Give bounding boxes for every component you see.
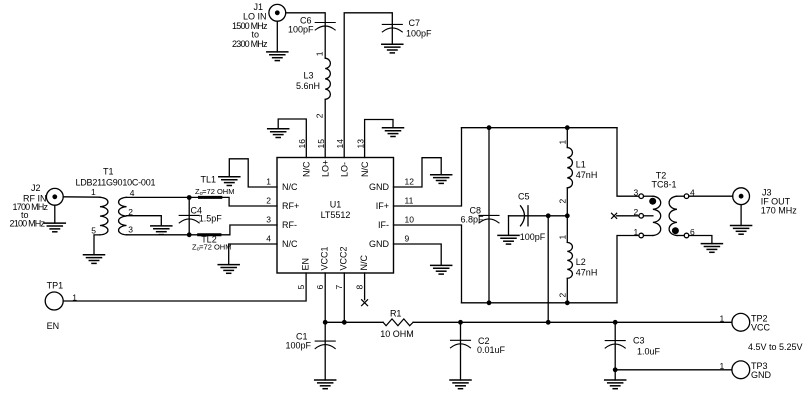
svg-text:1: 1 (72, 293, 77, 303)
transformer T2 pin 2 terminal (639, 214, 644, 219)
node pin7 junction (342, 320, 347, 325)
resistor R1 (383, 319, 413, 326)
inductor L2 (567, 242, 572, 278)
svg-text:1.0uF: 1.0uF (637, 347, 661, 357)
wire L1 bottom lead (566, 188, 568, 216)
svg-text:LT5512: LT5512 (321, 210, 351, 220)
node C8 bottom (487, 300, 492, 305)
svg-text:GND: GND (369, 182, 390, 192)
label C1 (285, 332, 311, 351)
svg-text:6.8pF: 6.8pF (460, 215, 484, 225)
label TP3 (720, 361, 772, 380)
svg-text:2: 2 (634, 207, 639, 217)
transformer T2 pin 3 terminal (639, 194, 644, 199)
label C6 (288, 16, 314, 35)
capacitor C4 (179, 198, 199, 235)
svg-text:3: 3 (266, 215, 271, 225)
label IC bottom pins (301, 246, 369, 270)
svg-text:R1: R1 (390, 308, 402, 318)
svg-text:14: 14 (335, 139, 345, 149)
label T1 (76, 167, 156, 188)
wire T2 pin 4 to J3 (689, 195, 733, 197)
wire pin 10 IF- faller (394, 225, 462, 303)
no-connect X (T2 pin 2) (612, 213, 617, 218)
test point TP3 (732, 361, 750, 379)
capacitor C7 (382, 24, 402, 32)
wire L2 bottom lead (566, 278, 568, 302)
label U1 (321, 200, 351, 221)
label C7 (406, 18, 432, 39)
svg-text:1: 1 (91, 187, 96, 197)
wire T1 pin 5 to ground (94, 235, 100, 255)
svg-text:47nH: 47nH (576, 170, 598, 180)
svg-text:VCC2: VCC2 (339, 246, 349, 270)
label TL1 (195, 175, 234, 198)
svg-text:4: 4 (266, 234, 271, 244)
wire TL1 to pin 2 (221, 197, 277, 206)
wire L1 top lead (566, 128, 568, 148)
label C5 (518, 192, 546, 243)
svg-text:2300 MHz: 2300 MHz (232, 39, 268, 49)
ground (C2) (450, 380, 471, 389)
wire IF bottom rail (462, 302, 618, 304)
ground (C5) (498, 235, 519, 244)
node C4 bottom junction (187, 232, 192, 237)
svg-text:1: 1 (720, 313, 725, 323)
wire center tap to C5 (548, 215, 567, 217)
transformer T2 pin 4 terminal (684, 194, 689, 199)
svg-text:2100 MHz: 2100 MHz (10, 219, 46, 229)
label C8 (460, 206, 484, 225)
svg-text:LDB211G9010C-001: LDB211G9010C-001 (76, 178, 156, 188)
svg-text:3: 3 (634, 188, 639, 198)
svg-text:8: 8 (354, 285, 364, 290)
svg-text:1: 1 (558, 235, 568, 240)
transformer T1 primary (100, 197, 108, 235)
ground (T2 pin 6) (701, 244, 722, 253)
capacitor C5 (521, 206, 529, 226)
wire T1 pin 3 to TL2 (127, 234, 220, 236)
ground (pin 12) (431, 175, 452, 184)
svg-text:L2: L2 (576, 257, 586, 267)
svg-text:100pF: 100pF (520, 232, 546, 242)
svg-text:2: 2 (558, 293, 568, 298)
ground (C3) (605, 380, 626, 389)
label R1 (380, 308, 414, 339)
wire IF+ rail to T2 pin 3 (617, 128, 639, 197)
svg-text:1.5pF: 1.5pF (199, 214, 223, 224)
node C3 bottom junction (613, 367, 618, 372)
svg-text:1: 1 (634, 227, 639, 237)
svg-text:LO-: LO- (340, 162, 350, 177)
label IC right pins (369, 182, 390, 249)
svg-text:GND: GND (751, 370, 772, 380)
label T2 pin numbers (634, 188, 696, 237)
svg-text:4: 4 (690, 188, 695, 198)
transformer T2 secondary (669, 196, 677, 235)
phasing dot T2 primary (649, 198, 656, 205)
wire T2 coil to pin 4 (677, 195, 684, 197)
label IC left pin numbers (266, 177, 271, 244)
svg-text:N/C: N/C (360, 161, 370, 177)
node C8 top (487, 125, 492, 130)
ground (pin 1) (219, 177, 240, 186)
wire J1 to C6 (286, 13, 326, 58)
wire T2 coil to pin 6 (677, 235, 684, 237)
node pin6 junction (323, 320, 328, 325)
wire L2 top lead (566, 216, 568, 243)
svg-text:N/C: N/C (282, 182, 298, 192)
svg-text:LO IN: LO IN (243, 12, 267, 22)
ground (J1) (267, 21, 288, 60)
inductor L3 (325, 58, 330, 99)
svg-text:7: 7 (334, 285, 344, 290)
node riser junction (546, 320, 551, 325)
svg-text:4.5V to 5.25V: 4.5V to 5.25V (748, 342, 803, 352)
svg-text:1: 1 (315, 51, 325, 56)
wire T2 pin3 to coil (644, 195, 653, 197)
svg-text:1: 1 (720, 361, 725, 371)
wire IF- rail to T2 pin 1 (617, 236, 639, 303)
capacitor C2 (451, 322, 471, 380)
svg-text:5: 5 (296, 285, 306, 290)
svg-text:9: 9 (405, 234, 410, 244)
label IC bottom pin numbers (296, 285, 364, 290)
svg-text:12: 12 (405, 177, 415, 187)
svg-text:EN: EN (47, 321, 60, 331)
connector J2 (46, 188, 63, 205)
wire GND line to TP3 (615, 369, 732, 371)
ground (J3) (731, 205, 752, 235)
capacitor C1 (315, 322, 335, 380)
label J3 block (761, 188, 798, 216)
svg-text:100pF: 100pF (285, 341, 311, 351)
svg-text:TL1: TL1 (201, 175, 217, 185)
svg-text:LO+: LO+ (321, 160, 331, 177)
wire pin 12 to ground (394, 158, 442, 187)
node C4 top junction (187, 195, 192, 200)
wire T1 pin 4 to TL1 (127, 196, 200, 198)
wire C5 left lead to ground (508, 216, 510, 236)
svg-text:C5: C5 (518, 192, 530, 202)
svg-text:T1: T1 (103, 167, 114, 177)
transformer T2 pin 1 terminal (639, 233, 644, 238)
svg-text:J2: J2 (31, 183, 41, 193)
svg-text:N/C: N/C (302, 161, 312, 177)
wire IF top rail (462, 127, 618, 129)
svg-text:3: 3 (128, 225, 133, 235)
node C2 junction (458, 320, 463, 325)
svg-text:1700 MHz: 1700 MHz (13, 202, 49, 212)
svg-text:to: to (251, 30, 259, 40)
wire C5 right lead (509, 215, 549, 217)
ground (pin 16) (268, 129, 289, 138)
svg-text:0.01uF: 0.01uF (477, 345, 506, 355)
inductor L1 (567, 148, 572, 188)
wire pin 16 to ground (278, 119, 306, 158)
svg-text:J1: J1 (253, 2, 263, 12)
svg-text:RF+: RF+ (282, 201, 299, 211)
node C3 junction (613, 320, 618, 325)
svg-text:C7: C7 (409, 18, 421, 28)
wire J2 to T1 pin 1 (63, 196, 100, 198)
svg-text:1: 1 (558, 140, 568, 145)
svg-text:10: 10 (405, 215, 415, 225)
wire T2 pin1 to coil (644, 235, 653, 237)
connector J3 (733, 188, 750, 205)
node L1 top (565, 125, 570, 130)
wire L3 to pin 15 (324, 99, 326, 157)
wire T1 pin 2 tap to ground (127, 216, 162, 226)
svg-text:2: 2 (315, 113, 325, 118)
label TP1 (47, 281, 78, 332)
ground (C7) (382, 44, 403, 53)
capacitor C6 (315, 23, 335, 31)
wire pin 5 EN to TP1 (63, 273, 306, 301)
svg-text:100pF: 100pF (288, 25, 314, 35)
svg-text:L1: L1 (576, 160, 586, 170)
label TL2 (192, 235, 231, 253)
connector J1 (269, 4, 286, 21)
wire pin 4 to ground (229, 244, 277, 265)
svg-text:IF-: IF- (378, 220, 389, 230)
ground (pin 13) (383, 128, 404, 137)
svg-text:1500 MHz: 1500 MHz (232, 21, 268, 31)
label IC left pins (282, 182, 299, 249)
svg-text:N/C: N/C (282, 239, 298, 249)
svg-text:100pF: 100pF (406, 29, 432, 39)
svg-text:5: 5 (91, 226, 96, 236)
wire TL2 to pin 3 (220, 225, 277, 235)
svg-text:11: 11 (405, 196, 414, 206)
wire T2 pin 6 to ground (689, 236, 712, 244)
label C4 (191, 206, 223, 224)
svg-text:TP1: TP1 (47, 281, 64, 291)
ground (T1 tap) (151, 226, 172, 235)
node center tap (565, 213, 570, 218)
node L2 bottom (565, 300, 570, 305)
transformer T1 secondary (119, 197, 127, 235)
transmission line TL1 (200, 196, 221, 199)
wire pin 13 to ground (365, 120, 393, 158)
transmission line TL2 (199, 233, 220, 236)
wire pin 14 riser to C7 (344, 13, 392, 158)
capacitor C3 (605, 322, 625, 380)
svg-text:TC8-1: TC8-1 (651, 180, 676, 190)
svg-text:5.6nH: 5.6nH (296, 81, 320, 91)
label TP2 (720, 313, 771, 332)
label L3 (296, 70, 320, 91)
svg-text:N/C: N/C (359, 255, 369, 271)
svg-text:47nH: 47nH (576, 268, 598, 278)
label IC right pin numbers (405, 177, 415, 244)
capacitor C8 (479, 128, 499, 303)
svg-text:10 OHM: 10 OHM (380, 329, 414, 339)
svg-text:L3: L3 (303, 70, 313, 80)
label C2 (477, 336, 506, 355)
wire VCC riser (547, 216, 549, 322)
no-connect X (pin 8) (362, 300, 368, 306)
label IC top pin numbers (297, 139, 365, 149)
label IC top pins (302, 160, 370, 177)
svg-text:C3: C3 (633, 336, 645, 346)
svg-text:VCC: VCC (751, 323, 771, 333)
ground (J2) (44, 205, 65, 232)
label T2 (651, 171, 676, 190)
svg-text:4: 4 (130, 188, 135, 198)
svg-text:6: 6 (315, 285, 325, 290)
wire pin 7 to VCC line (343, 273, 345, 322)
svg-text:RF-: RF- (282, 220, 297, 230)
svg-text:2: 2 (558, 199, 568, 204)
svg-text:16: 16 (297, 139, 307, 149)
svg-text:VCC1: VCC1 (320, 246, 330, 270)
test point TP1 (45, 292, 63, 310)
wire T2 pin 2 stub (617, 215, 639, 217)
label L1 (576, 160, 598, 180)
label J1 block (232, 2, 268, 49)
wire pin 11 IF+ riser (394, 128, 462, 206)
svg-text:6: 6 (690, 227, 695, 237)
ground (T1 pin 5) (84, 255, 105, 264)
test point TP2 (732, 313, 750, 331)
wire VCC line right (413, 321, 732, 323)
svg-text:1: 1 (266, 177, 271, 187)
label L2 (576, 257, 598, 278)
phasing dot T2 secondary (672, 227, 679, 234)
svg-text:U1: U1 (330, 200, 342, 210)
svg-text:IF+: IF+ (376, 201, 389, 211)
ground (pin 4) (218, 265, 239, 274)
svg-text:13: 13 (355, 139, 365, 149)
wire VCC line left (325, 321, 383, 323)
label J2 block (10, 183, 49, 229)
ground (pin 9) (431, 265, 452, 274)
transformer T2 pin 6 terminal (684, 233, 689, 238)
wire pin 6 to VCC line (324, 273, 326, 322)
svg-text:15: 15 (316, 139, 326, 149)
transformer T2 primary (653, 196, 661, 235)
svg-text:2: 2 (266, 196, 271, 206)
wire pin 9 to ground (394, 244, 442, 265)
wire pin 1 to ground (229, 159, 277, 187)
svg-text:GND: GND (369, 239, 390, 249)
wire pin 8 stub (364, 273, 366, 300)
svg-text:170 MHz: 170 MHz (761, 206, 798, 216)
wire T2 pin2 to coil (644, 215, 653, 217)
label C3 (633, 336, 661, 357)
svg-text:EN: EN (301, 258, 311, 271)
svg-text:2: 2 (128, 207, 133, 217)
ground (C1) (315, 380, 336, 389)
op-amp U1 LT5512 box (277, 158, 394, 274)
node C5 junction (546, 213, 551, 218)
